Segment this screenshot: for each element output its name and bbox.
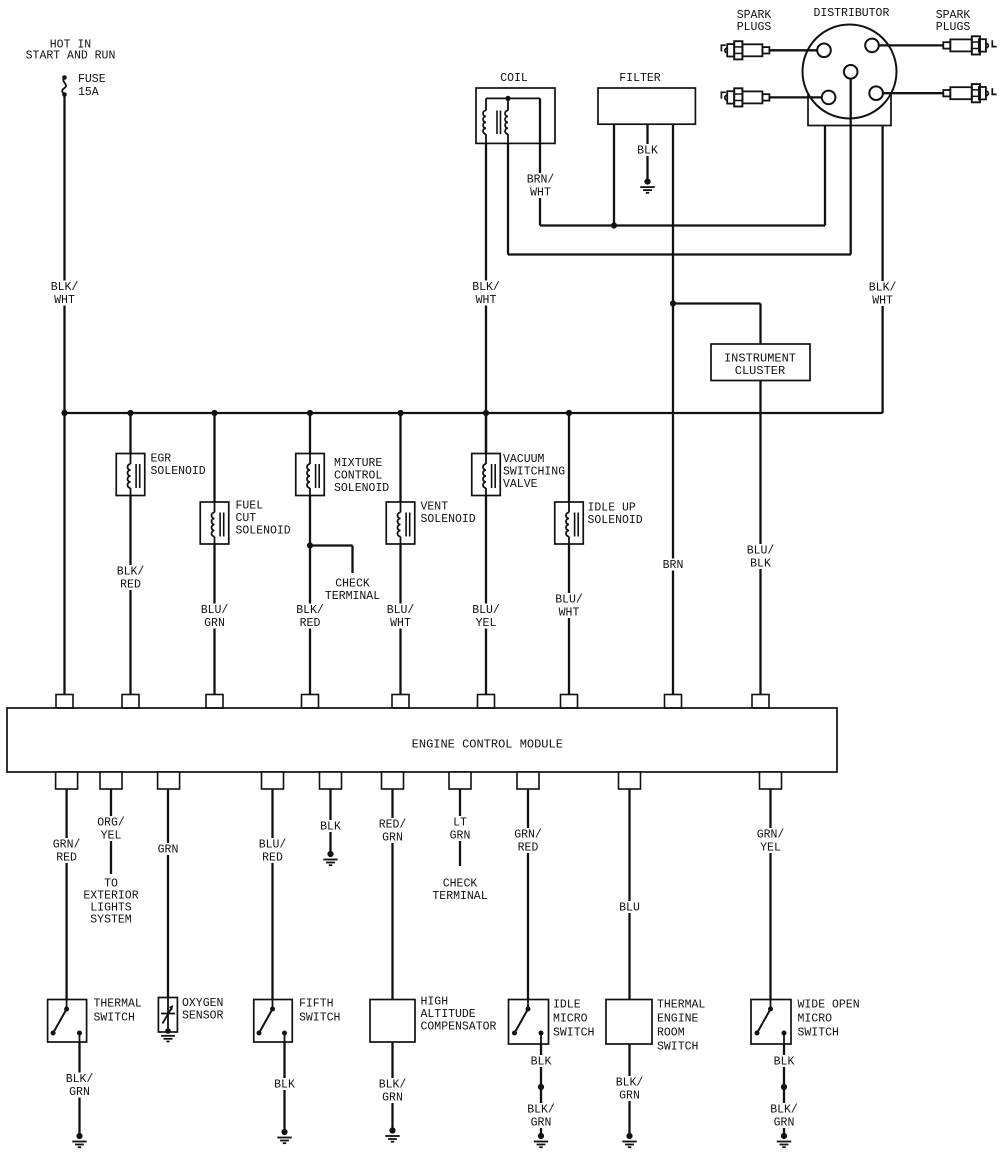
svg-text:GRN: GRN bbox=[382, 832, 403, 845]
spark plug lower-right bbox=[943, 84, 996, 102]
svg-text:BLU/: BLU/ bbox=[259, 839, 287, 852]
distributor terminal bottom-left bbox=[822, 91, 836, 105]
svg-text:SWITCH: SWITCH bbox=[299, 1012, 340, 1025]
wire coil left terminal down to bus (BLK/WHT) bbox=[485, 143, 487, 453]
wire thermal engine room switch to ground (BLK/GRN) bbox=[628, 1044, 630, 1136]
wire ECM to fifth switch (BLU/RED) bbox=[271, 789, 273, 1000]
svg-text:BLK/: BLK/ bbox=[117, 566, 145, 579]
svg-text:RED: RED bbox=[300, 617, 321, 630]
coil assembly box bbox=[476, 88, 555, 143]
svg-text:WHT: WHT bbox=[530, 187, 551, 200]
thermal engine room switch label bbox=[657, 999, 705, 1054]
distributor terminal top-left bbox=[817, 44, 831, 58]
mixture control solenoid label bbox=[334, 457, 389, 495]
svg-text:RED: RED bbox=[120, 579, 141, 592]
svg-text:MIXTURE: MIXTURE bbox=[334, 457, 382, 470]
wire bus to fuel cut solenoid bbox=[213, 413, 215, 502]
wire label BRN bbox=[660, 559, 687, 573]
svg-text:BLK: BLK bbox=[531, 1056, 552, 1069]
wire label GRN (oxygen) bbox=[155, 843, 182, 857]
thermal switch label bbox=[94, 998, 142, 1025]
svg-text:COIL: COIL bbox=[500, 72, 528, 85]
wire branch to check terminal bbox=[310, 546, 353, 574]
check terminal label (upper) bbox=[325, 578, 380, 604]
thermal engine room switch box bbox=[606, 1000, 652, 1045]
junction splice wide open bbox=[781, 1084, 787, 1090]
svg-text:WHT: WHT bbox=[559, 607, 580, 620]
wire filter right lead down to ECM (BRN) bbox=[672, 124, 674, 694]
junction bus-fuse wire bbox=[61, 410, 67, 416]
wire label BLU/WHT (vent) bbox=[384, 604, 418, 631]
vent solenoid bbox=[386, 502, 415, 544]
svg-text:FILTER: FILTER bbox=[619, 72, 661, 85]
wire bus to idle up solenoid bbox=[568, 413, 570, 502]
wire high altitude compensator to ground (BLK/GRN) bbox=[391, 1042, 393, 1131]
wire ECM to oxygen sensor (GRN) bbox=[167, 789, 169, 998]
wire label BLK (filter ground lead) bbox=[634, 144, 661, 158]
coil label COIL bbox=[500, 72, 528, 85]
svg-text:BLK: BLK bbox=[637, 145, 658, 158]
wire label GRN/RED (idle micro) bbox=[511, 828, 545, 855]
idle up solenoid bbox=[555, 502, 584, 544]
ground below thermal switch bbox=[72, 1133, 86, 1147]
wire to spark plug lower-left bbox=[769, 96, 821, 98]
wire distributor right pin down to bus (BLK/WHT) bbox=[881, 126, 883, 414]
wire ECM to thermal engine room switch (BLU) bbox=[628, 789, 630, 1000]
ECM label ENGINE CONTROL MODULE bbox=[412, 738, 563, 752]
wire BRN/WHT horizontal run to distributor bbox=[540, 224, 825, 226]
wire fifth switch to ground (BLK) bbox=[283, 1042, 285, 1132]
wire idle micro switch down (BLK) bbox=[540, 1044, 542, 1136]
ground below thermal engine room switch bbox=[622, 1133, 636, 1147]
ground below high altitude compensator bbox=[385, 1127, 399, 1141]
spark plug lower-left bbox=[721, 88, 769, 106]
high altitude compensator box bbox=[370, 1000, 415, 1043]
junction bus-vacuum bbox=[483, 410, 489, 416]
ECM engine control module box bbox=[7, 708, 837, 772]
oxygen sensor bbox=[158, 998, 177, 1034]
wire to spark plug upper-right bbox=[879, 44, 944, 46]
svg-text:GRN: GRN bbox=[450, 830, 471, 843]
svg-text:OXYGEN: OXYGEN bbox=[182, 997, 223, 1010]
EGR solenoid bbox=[116, 454, 145, 496]
idle micro switch bbox=[509, 1000, 549, 1045]
oxygen sensor label bbox=[182, 997, 224, 1023]
svg-text:SOLENOID: SOLENOID bbox=[151, 465, 206, 478]
ground below filter bbox=[640, 179, 654, 193]
wire ECM to wide open micro switch (GRN/YEL) bbox=[769, 789, 771, 1000]
svg-text:BLU/: BLU/ bbox=[201, 604, 229, 617]
high altitude compensator label bbox=[421, 996, 497, 1034]
svg-text:BLK/: BLK/ bbox=[616, 1077, 644, 1090]
svg-text:BLK/: BLK/ bbox=[869, 282, 897, 295]
svg-text:EGR: EGR bbox=[151, 453, 172, 466]
wire coil secondary to distributor center bbox=[508, 253, 851, 255]
wire bus to EGR solenoid bbox=[129, 413, 131, 454]
wire label BLK (wide open) bbox=[771, 1055, 798, 1069]
wire EGR solenoid to ECM (BLK/RED) bbox=[129, 496, 131, 695]
filter box bbox=[598, 88, 695, 124]
wire branch to instrument cluster bbox=[673, 304, 761, 345]
svg-text:CHECK: CHECK bbox=[335, 578, 370, 591]
wire ECM to idle micro switch (GRN/RED) bbox=[527, 789, 529, 1000]
svg-text:SWITCH: SWITCH bbox=[94, 1012, 135, 1025]
ground below oxygen sensor bbox=[161, 1036, 175, 1042]
wire label BRN/WHT bbox=[524, 173, 558, 200]
svg-text:PLUGS: PLUGS bbox=[936, 21, 971, 34]
wire label GRN/RED (thermal) bbox=[50, 838, 84, 865]
svg-text:YEL: YEL bbox=[101, 830, 122, 843]
junction bus-EGR bbox=[127, 410, 133, 416]
svg-text:BLU/: BLU/ bbox=[472, 604, 500, 617]
wire vent solenoid to ECM (BLU/WHT) bbox=[399, 544, 401, 695]
wire label BLU bbox=[616, 901, 643, 915]
wire to spark plug lower-right bbox=[883, 92, 943, 94]
wire label GRN/YEL bbox=[754, 828, 788, 855]
svg-text:GRN/: GRN/ bbox=[514, 829, 542, 842]
fuse value label FUSE 15A bbox=[78, 73, 106, 99]
coil secondary winding bbox=[505, 98, 508, 143]
svg-text:LT: LT bbox=[453, 817, 467, 830]
svg-text:VALVE: VALVE bbox=[503, 478, 538, 491]
svg-text:SOLENOID: SOLENOID bbox=[236, 525, 291, 538]
svg-text:TERMINAL: TERMINAL bbox=[325, 590, 380, 603]
spark plugs label (right) bbox=[936, 9, 971, 34]
svg-text:YEL: YEL bbox=[476, 617, 497, 630]
wire label LT GRN bbox=[447, 816, 474, 843]
junction bus-vent bbox=[397, 410, 403, 416]
svg-text:ENGINE CONTROL MODULE: ENGINE CONTROL MODULE bbox=[412, 738, 563, 752]
svg-text:SOLENOID: SOLENOID bbox=[421, 513, 476, 526]
svg-text:ENGINE: ENGINE bbox=[657, 1013, 699, 1026]
svg-text:SOLENOID: SOLENOID bbox=[334, 482, 389, 495]
wire ECM to high altitude compensator (RED/GRN) bbox=[391, 789, 393, 1000]
fuse F 15A symbol bbox=[62, 75, 67, 97]
filter label FILTER bbox=[619, 72, 661, 85]
coil core lines bbox=[497, 111, 501, 135]
svg-text:BLK: BLK bbox=[774, 1056, 795, 1069]
svg-text:BLU/: BLU/ bbox=[387, 604, 415, 617]
vacuum switching valve label bbox=[503, 453, 565, 491]
wire filter left lead bbox=[613, 124, 615, 225]
svg-text:IDLE UP: IDLE UP bbox=[588, 502, 636, 515]
svg-text:GRN: GRN bbox=[531, 1117, 552, 1130]
svg-text:CONTROL: CONTROL bbox=[334, 470, 382, 483]
junction filter-left on BRN/WHT wire bbox=[611, 222, 617, 228]
wire label BLK/GRN (HAC) bbox=[376, 1078, 410, 1105]
wire label BLK/GRN (thermal) bbox=[63, 1073, 97, 1100]
svg-text:RED/: RED/ bbox=[379, 819, 407, 832]
wire label ORG/YEL bbox=[94, 816, 128, 843]
destination label TO EXTERIOR LIGHTS SYSTEM bbox=[83, 878, 138, 927]
wire label BLK (fifth) bbox=[271, 1078, 298, 1092]
fuel cut solenoid bbox=[200, 502, 229, 544]
svg-text:BLK/: BLK/ bbox=[527, 1104, 555, 1117]
svg-text:SWITCHING: SWITCHING bbox=[503, 466, 565, 479]
svg-text:BLK/: BLK/ bbox=[379, 1079, 407, 1092]
wire label BLK/RED (mixture) bbox=[293, 604, 327, 631]
svg-text:WHT: WHT bbox=[872, 295, 893, 308]
spark plug upper-right bbox=[943, 36, 996, 54]
fifth switch label bbox=[299, 998, 340, 1025]
wire ECM to check terminal (LT GRN) bbox=[459, 789, 461, 866]
svg-text:YEL: YEL bbox=[760, 842, 781, 855]
vent solenoid label bbox=[421, 501, 476, 527]
svg-text:FUEL: FUEL bbox=[236, 500, 264, 513]
wire filter middle lead (BLK) bbox=[646, 124, 648, 181]
svg-text:GRN: GRN bbox=[158, 844, 179, 857]
svg-text:COMPENSATOR: COMPENSATOR bbox=[421, 1021, 497, 1034]
svg-text:VACUUM: VACUUM bbox=[503, 453, 545, 466]
svg-text:START AND RUN: START AND RUN bbox=[26, 50, 116, 63]
svg-text:BLU/: BLU/ bbox=[747, 545, 775, 558]
svg-text:GRN: GRN bbox=[382, 1092, 403, 1105]
power source label HOT IN START AND RUN bbox=[26, 39, 116, 63]
vacuum switching valve bbox=[472, 454, 501, 496]
svg-text:TERMINAL: TERMINAL bbox=[432, 890, 487, 903]
svg-text:GRN/: GRN/ bbox=[53, 839, 81, 852]
svg-text:GRN: GRN bbox=[619, 1090, 640, 1103]
wire bus to vacuum switching valve bbox=[485, 413, 487, 454]
svg-text:CHECK: CHECK bbox=[443, 878, 478, 891]
wire bus to vent solenoid bbox=[399, 413, 401, 502]
junction bus-fuel-cut bbox=[211, 410, 217, 416]
svg-text:GRN: GRN bbox=[204, 617, 225, 630]
wire label BLK/RED (EGR) bbox=[114, 565, 148, 592]
wide open micro switch bbox=[751, 1000, 791, 1045]
wire distributor left pin down bbox=[824, 126, 826, 226]
ECM bottom connector pins bbox=[56, 772, 782, 789]
svg-text:IDLE: IDLE bbox=[553, 999, 581, 1012]
svg-text:DISTRIBUTOR: DISTRIBUTOR bbox=[813, 7, 889, 20]
junction bus-idle-up bbox=[566, 410, 572, 416]
svg-text:BLK/: BLK/ bbox=[770, 1104, 798, 1117]
svg-text:MICRO: MICRO bbox=[798, 1013, 833, 1026]
wire label BLK/WHT (coil wire) bbox=[469, 281, 503, 308]
svg-text:BRN/: BRN/ bbox=[527, 174, 555, 187]
wire mixture control solenoid to ECM (BLK/RED) bbox=[309, 496, 311, 695]
wire label BLU/YEL bbox=[469, 604, 503, 631]
coil internal top wire with junction bbox=[486, 96, 540, 101]
spark plugs label (left) bbox=[737, 9, 772, 34]
svg-text:GRN: GRN bbox=[69, 1086, 90, 1099]
svg-text:RED: RED bbox=[518, 842, 539, 855]
wire label BLK (idle micro) bbox=[528, 1055, 555, 1069]
ground below fifth switch bbox=[277, 1129, 291, 1143]
svg-text:BRN: BRN bbox=[663, 559, 684, 572]
svg-text:SYSTEM: SYSTEM bbox=[90, 914, 132, 927]
svg-text:BLK/: BLK/ bbox=[66, 1073, 94, 1086]
wire label BLK/WHT (distributor) bbox=[866, 281, 900, 308]
svg-text:FIFTH: FIFTH bbox=[299, 998, 334, 1011]
idle micro switch label bbox=[553, 999, 594, 1040]
svg-text:RED: RED bbox=[56, 852, 77, 865]
svg-text:THERMAL: THERMAL bbox=[657, 999, 705, 1012]
fuel cut solenoid label bbox=[236, 500, 291, 538]
mixture control solenoid bbox=[296, 454, 325, 496]
wire instrument cluster to ECM (BLU/BLK) bbox=[759, 381, 761, 695]
svg-text:15A: 15A bbox=[78, 86, 99, 99]
main bus wire bbox=[65, 412, 883, 414]
instrument cluster label bbox=[724, 352, 796, 378]
coil primary winding bbox=[483, 98, 486, 143]
svg-text:SWITCH: SWITCH bbox=[798, 1027, 839, 1040]
svg-text:BLK: BLK bbox=[320, 821, 341, 834]
wire label BLU/BLK bbox=[744, 544, 778, 571]
wire ECM to thermal switch (GRN/RED) bbox=[65, 789, 67, 1000]
svg-text:PLUGS: PLUGS bbox=[737, 21, 772, 34]
svg-text:BLK: BLK bbox=[750, 558, 771, 571]
wire thermal switch to ground (BLK/GRN) bbox=[78, 1042, 80, 1136]
wire label BLU/WHT (idle up) bbox=[552, 593, 586, 620]
svg-text:SWITCH: SWITCH bbox=[553, 1027, 594, 1040]
wire label BLK/GRN (TERS) bbox=[613, 1076, 647, 1103]
svg-text:HIGH: HIGH bbox=[421, 996, 449, 1009]
wire label BLU/RED bbox=[256, 838, 290, 865]
svg-text:CUT: CUT bbox=[236, 512, 257, 525]
thermal switch bbox=[48, 1000, 87, 1043]
svg-text:BLK/: BLK/ bbox=[296, 604, 324, 617]
svg-text:BLK: BLK bbox=[274, 1079, 295, 1092]
distributor cap circle bbox=[803, 25, 897, 119]
svg-text:SOLENOID: SOLENOID bbox=[588, 514, 643, 527]
wire idle up solenoid to ECM (BLU/WHT) bbox=[568, 544, 570, 695]
svg-text:WHT: WHT bbox=[54, 294, 75, 307]
ground below BLK stub bbox=[323, 851, 337, 865]
svg-text:FUSE: FUSE bbox=[78, 73, 106, 86]
wire label RED/GRN bbox=[376, 818, 410, 845]
wire coil secondary down bbox=[507, 143, 509, 254]
svg-text:WHT: WHT bbox=[390, 617, 411, 630]
wire label BLK/GRN (idle micro) bbox=[524, 1103, 558, 1130]
svg-text:WHT: WHT bbox=[476, 294, 497, 307]
EGR solenoid label bbox=[151, 453, 206, 479]
wire wide open micro switch down (BLK) bbox=[783, 1044, 785, 1136]
distributor terminal bottom-right bbox=[869, 86, 883, 100]
wire distributor center pin down bbox=[850, 79, 852, 255]
svg-text:MICRO: MICRO bbox=[553, 1013, 588, 1026]
svg-text:BLK/: BLK/ bbox=[472, 281, 500, 294]
svg-text:VENT: VENT bbox=[421, 501, 449, 514]
junction check terminal branch bbox=[307, 542, 313, 548]
ECM top connector pins bbox=[56, 695, 769, 709]
junction instrument-cluster branch bbox=[670, 300, 676, 306]
svg-text:SWITCH: SWITCH bbox=[657, 1041, 698, 1054]
check terminal label (lower) bbox=[432, 878, 487, 904]
svg-text:WIDE OPEN: WIDE OPEN bbox=[798, 999, 860, 1012]
wire bus to mixture control solenoid bbox=[309, 413, 311, 454]
svg-text:CLUSTER: CLUSTER bbox=[735, 364, 785, 378]
svg-text:GRN: GRN bbox=[774, 1117, 795, 1130]
wire label BLK/GRN (wide open) bbox=[767, 1103, 801, 1130]
svg-text:BLK/: BLK/ bbox=[51, 281, 79, 294]
idle up solenoid label bbox=[588, 502, 643, 528]
distributor base rectangle bbox=[808, 95, 891, 125]
svg-text:SENSOR: SENSOR bbox=[182, 1010, 224, 1023]
wire vacuum switching valve to ECM (BLU/YEL) bbox=[485, 496, 487, 695]
wire coil BRN/WHT branch down bbox=[539, 98, 541, 225]
svg-text:ROOM: ROOM bbox=[657, 1027, 685, 1040]
svg-text:GRN/: GRN/ bbox=[757, 829, 785, 842]
instrument cluster box bbox=[711, 344, 810, 381]
svg-text:RED: RED bbox=[262, 852, 283, 865]
ground below wide open micro switch bbox=[777, 1133, 791, 1147]
wire ECM to ground (BLK) bbox=[329, 789, 331, 854]
svg-text:BLU/: BLU/ bbox=[555, 594, 583, 607]
spark plug upper-left bbox=[721, 41, 769, 59]
wire to spark plug upper-left bbox=[769, 49, 817, 51]
wire label BLU/GRN bbox=[198, 604, 232, 631]
svg-text:THERMAL: THERMAL bbox=[94, 998, 142, 1011]
svg-text:BLU: BLU bbox=[619, 902, 640, 915]
wire fuse to bus to ECM pin1 (BLK/WHT) bbox=[63, 96, 65, 695]
wire label BLK (stub) bbox=[317, 820, 344, 834]
distributor label DISTRIBUTOR bbox=[813, 7, 889, 20]
wire label BLK/WHT (fuse wire) bbox=[48, 281, 82, 308]
distributor terminal center bbox=[844, 65, 858, 79]
wire ECM to exterior lights (ORG/YEL) bbox=[110, 789, 112, 874]
junction splice idle micro bbox=[538, 1084, 544, 1090]
junction bus-mixture bbox=[307, 410, 313, 416]
wide open micro switch label bbox=[798, 999, 860, 1040]
ground below idle micro switch bbox=[534, 1133, 548, 1147]
svg-text:ORG/: ORG/ bbox=[97, 817, 125, 830]
wire fuel cut solenoid to ECM (BLU/GRN) bbox=[213, 544, 215, 695]
fifth switch bbox=[254, 1000, 293, 1043]
distributor terminal top-right bbox=[865, 39, 879, 53]
svg-text:ALTITUDE: ALTITUDE bbox=[421, 1008, 476, 1021]
